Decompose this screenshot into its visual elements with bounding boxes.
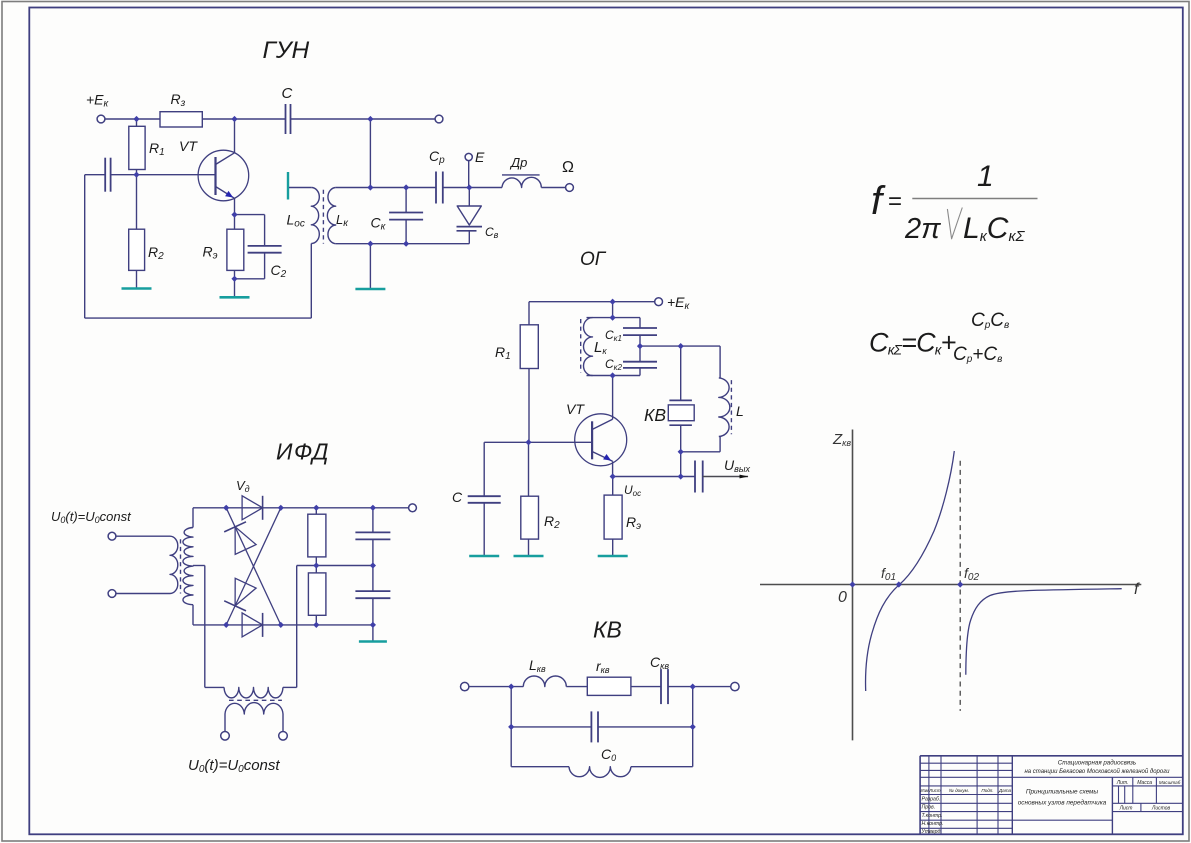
svg-text:CрCв: CрCв [971,310,1009,331]
svg-text:Изм: Изм [920,788,928,793]
svg-text:ГУН: ГУН [263,37,310,64]
svg-text:VT: VT [179,138,198,154]
svg-text:Лист: Лист [928,788,941,793]
svg-text:Дата: Дата [998,788,1012,793]
svg-text:ОГ: ОГ [580,249,607,270]
svg-text:1: 1 [977,160,994,193]
svg-text:Пров.: Пров. [922,805,936,811]
svg-text:=: = [888,188,902,215]
svg-text:Н.контр.: Н.контр. [922,821,944,827]
svg-text:CкΣ=Cк+: CкΣ=Cк+ [869,328,956,358]
svg-text:Е: Е [475,149,485,165]
svg-text:КВ: КВ [644,405,666,425]
svg-text:Масштаб: Масштаб [1159,780,1181,785]
svg-text:Стационарная радиосвязь: Стационарная радиосвязь [1058,760,1136,767]
svg-text:основных узлов передатчика: основных узлов передатчика [1018,799,1107,807]
svg-text:VT: VT [566,401,585,417]
svg-text:№ докум.: № докум. [949,788,969,793]
svg-text:Лист: Лист [1119,806,1133,812]
svg-text:Подп.: Подп. [981,788,993,793]
svg-text:Принципиальные схемы: Принципиальные схемы [1026,789,1099,796]
svg-text:Масса: Масса [1137,780,1152,786]
svg-text:Разраб.: Разраб. [922,797,941,803]
svg-text:С: С [452,489,463,505]
svg-text:КВ: КВ [593,617,622,643]
svg-text:L: L [736,403,744,419]
svg-text:0: 0 [838,589,847,606]
svg-text:С: С [282,85,293,102]
svg-text:Лит.: Лит. [1116,780,1129,786]
svg-text:Утверд.: Утверд. [922,829,942,835]
svg-text:на станции Бекасово Московской: на станции Бекасово Московской железной … [1024,768,1170,775]
svg-text:Др: Др [509,155,527,170]
svg-text:ИФД: ИФД [276,439,330,465]
svg-text:2π: 2π [904,213,941,245]
svg-text:Листов: Листов [1151,806,1171,812]
svg-text:Ω: Ω [562,159,574,176]
svg-text:Cр+Cв: Cр+Cв [953,344,1002,365]
svg-text:Т.контр.: Т.контр. [922,813,943,819]
